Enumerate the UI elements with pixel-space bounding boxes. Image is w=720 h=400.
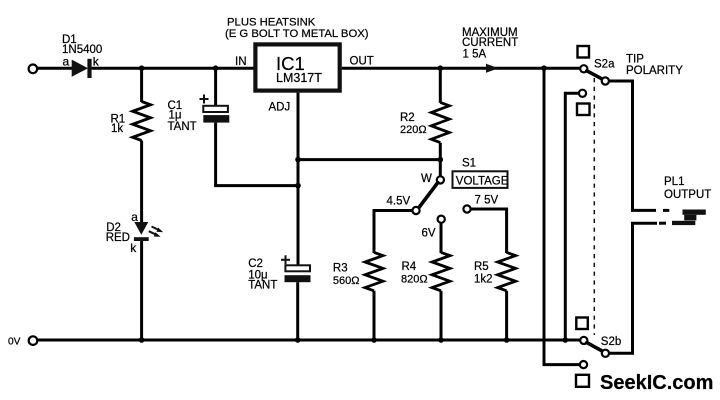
svg-text:k: k <box>130 241 137 255</box>
connector PL1 dash top <box>663 209 669 212</box>
current arrow <box>486 64 499 73</box>
svg-text:1μ: 1μ <box>169 110 182 122</box>
switch S2b common contact <box>580 337 587 344</box>
svg-text:S1: S1 <box>462 157 476 169</box>
switch S1 contact 4.5V <box>412 207 419 214</box>
wire 4.5V contact to R3 <box>374 211 412 254</box>
switch S2a lever <box>587 71 603 79</box>
switch S2b throw contact <box>602 350 609 357</box>
svg-text:TANT: TANT <box>248 280 277 292</box>
switch S1 contact 6V <box>438 216 445 223</box>
svg-text:560Ω: 560Ω <box>333 275 360 287</box>
wire C2 bottom to 0V rail <box>296 282 299 340</box>
wire diode to IC1 IN <box>92 67 254 70</box>
switch S2a common contact <box>580 65 587 72</box>
svg-text:PLUS HEATSINK: PLUS HEATSINK <box>227 16 316 28</box>
wire S2a throw to connector top <box>609 81 656 210</box>
wire 6V contact to R4 <box>440 223 443 253</box>
wire C1 top <box>214 68 217 106</box>
ganged switch link (dashed) <box>593 78 595 335</box>
svg-text:OUT: OUT <box>350 55 374 67</box>
node junction top rail / R1 <box>139 65 145 71</box>
node rail/R4 <box>438 337 444 343</box>
node ADJ / R2 link junction <box>295 157 301 163</box>
node rail/R3 <box>371 337 377 343</box>
node junction top rail / S2b return <box>541 65 547 71</box>
svg-text:S2a: S2a <box>594 58 615 70</box>
svg-text:POLARITY: POLARITY <box>626 65 683 77</box>
LED D2 RED <box>106 210 164 255</box>
svg-text:1k2: 1k2 <box>474 273 493 285</box>
svg-text:7 5V: 7 5V <box>475 194 499 206</box>
wire R2 bottom to wiper <box>439 143 442 177</box>
resistor R5 1k2 <box>474 252 516 290</box>
switch S2a terminal square top <box>578 46 590 58</box>
node C1/ADJ junction <box>295 183 301 189</box>
svg-text:ADJ: ADJ <box>269 101 291 113</box>
wire 0V rail <box>38 339 581 342</box>
wire R1 to LED D2 <box>140 141 143 224</box>
svg-text:(E G BOLT TO METAL BOX): (E G BOLT TO METAL BOX) <box>225 28 369 40</box>
wire R5 bottom to 0V rail <box>505 291 508 340</box>
capacitor C2 10u TANT <box>248 255 310 291</box>
connector PL1 plug step <box>684 215 696 221</box>
switch S2a throw contact <box>602 77 609 84</box>
resistor R3 560 ohm <box>333 252 383 290</box>
node junction top rail / C1 <box>213 65 219 71</box>
0V terminal <box>29 336 38 345</box>
node junction top rail / R2 <box>438 65 444 71</box>
wire S2b throw to connector bottom <box>609 223 657 353</box>
resistor R1 1k <box>111 102 151 141</box>
svg-text:R4: R4 <box>402 261 417 273</box>
wire R1 top <box>140 68 143 102</box>
switch S2b lower contact <box>580 361 587 368</box>
wire IC1 OUT to S2a <box>342 67 580 70</box>
svg-text:a: a <box>63 55 70 69</box>
node rail/S2a return <box>563 337 569 343</box>
svg-text:220Ω: 220Ω <box>400 124 427 136</box>
connector PL1 plug sleeve <box>672 221 695 225</box>
svg-text:6V: 6V <box>422 227 436 239</box>
resistor R4 820 ohm <box>401 252 450 290</box>
svg-text:1k: 1k <box>111 123 123 135</box>
switch S2a terminal square bottom <box>577 104 590 116</box>
wire LED to 0V rail <box>140 241 143 340</box>
node rail/D2 <box>139 337 145 343</box>
svg-text:SeekIC.com: SeekIC.com <box>600 372 713 394</box>
svg-text:4.5V: 4.5V <box>387 195 411 207</box>
connector PL1 dash bottom <box>659 222 666 225</box>
switch S1 contact 7.5V <box>463 205 470 212</box>
wire R3 bottom to 0V rail <box>373 291 376 340</box>
svg-text:S2b: S2b <box>601 336 621 348</box>
resistor R2 220 ohm <box>400 102 449 142</box>
svg-text:k: k <box>93 55 100 69</box>
op-amp U1 : IC1 LM317T regulator box <box>235 44 374 113</box>
svg-text:CURRENT: CURRENT <box>462 37 518 49</box>
switch S2b lever <box>587 343 603 352</box>
svg-text:TANT: TANT <box>168 121 197 133</box>
wire input to diode D1 <box>38 67 73 70</box>
input terminal <box>29 65 38 74</box>
switch S1 lever <box>419 183 438 208</box>
wire ADJ pin down <box>297 93 300 266</box>
switch S2b terminal square bottom <box>576 375 589 387</box>
connector PL1 plug tip <box>683 210 706 215</box>
switch S2a NC contact <box>579 90 586 97</box>
wire 7.5V contact to R5 <box>471 209 507 253</box>
wire R2 top <box>439 68 442 103</box>
svg-text:RED: RED <box>106 232 130 244</box>
svg-text:R2: R2 <box>400 112 415 124</box>
switch S1 wiper contact W <box>437 176 444 183</box>
wire S2b lower contact to top rail <box>544 68 580 364</box>
svg-text:W: W <box>421 173 432 185</box>
switch S2b terminal square top <box>576 318 588 330</box>
node rail/R5 <box>504 337 510 343</box>
svg-text:VOLTAGE: VOLTAGE <box>456 176 509 188</box>
svg-text:1 5A: 1 5A <box>463 48 487 60</box>
svg-text:R3: R3 <box>333 262 348 274</box>
svg-text:TIP: TIP <box>626 53 644 65</box>
svg-text:IN: IN <box>235 56 247 68</box>
svg-text:R5: R5 <box>474 261 489 273</box>
capacitor C1 1u TANT <box>168 95 230 133</box>
svg-text:LM317T: LM317T <box>276 71 322 85</box>
svg-text:PL1: PL1 <box>664 176 684 188</box>
node R2 bottom junction <box>438 157 444 163</box>
svg-text:OUTPUT: OUTPUT <box>664 189 711 201</box>
diode D1 1N5400 <box>62 34 102 78</box>
node rail/C2 <box>295 337 301 343</box>
svg-text:a: a <box>131 210 138 224</box>
svg-text:820Ω: 820Ω <box>401 273 428 285</box>
wire C1 bottom to ADJ node <box>216 123 298 186</box>
wire ADJ to R2 bottom <box>298 158 440 161</box>
wire S2a NC to down rail <box>565 93 579 340</box>
wire R4 bottom to 0V rail <box>440 291 443 340</box>
switch S1 VOLTAGE box <box>453 171 508 188</box>
svg-text:0V: 0V <box>8 337 21 348</box>
